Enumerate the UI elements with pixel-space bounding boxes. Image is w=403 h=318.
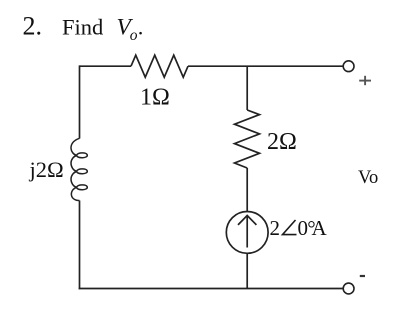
current source I1 (circle)	[226, 212, 268, 254]
polarity + label	[359, 76, 371, 85]
title "2. Find Vo."	[23, 12, 144, 44]
wire: top-right horizontal segment to terminal	[188, 65, 343, 67]
svg-text:1Ω: 1Ω	[140, 84, 170, 110]
terminal node (bottom right, open circle)	[343, 283, 354, 294]
current source arrow (pointing up)	[246, 216, 248, 248]
svg-text:Find: Find	[62, 15, 103, 40]
polarity - label	[360, 275, 365, 277]
svg-text:2Ω: 2Ω	[267, 129, 297, 155]
svg-text:A: A	[312, 216, 328, 240]
resistor R2 2Ω (vertical zigzag)	[235, 110, 260, 168]
svg-text:2: 2	[270, 216, 281, 240]
svg-text:Vo: Vo	[358, 168, 378, 188]
inductor L j2Ω (coil with 3 loops)	[71, 138, 87, 200]
resistor R1 1Ω (horizontal zigzag)	[131, 55, 188, 77]
svg-text:o: o	[130, 27, 138, 44]
svg-text:j2Ω: j2Ω	[29, 157, 64, 182]
wire: bottom horizontal segment	[79, 288, 344, 290]
wire: left vertical upper segment	[79, 65, 81, 138]
wire: middle branch between resistor and source	[246, 168, 248, 212]
svg-text:2.: 2.	[23, 12, 43, 41]
wire: top-left horizontal segment	[80, 65, 132, 67]
terminal node (top right, open circle)	[343, 61, 354, 72]
wire: middle branch bottom segment	[246, 253, 248, 288]
wire: middle branch top segment	[246, 66, 248, 110]
svg-text:.: .	[138, 15, 144, 40]
value label 2∠0°A	[270, 216, 328, 240]
wire: left vertical lower segment	[79, 201, 81, 290]
